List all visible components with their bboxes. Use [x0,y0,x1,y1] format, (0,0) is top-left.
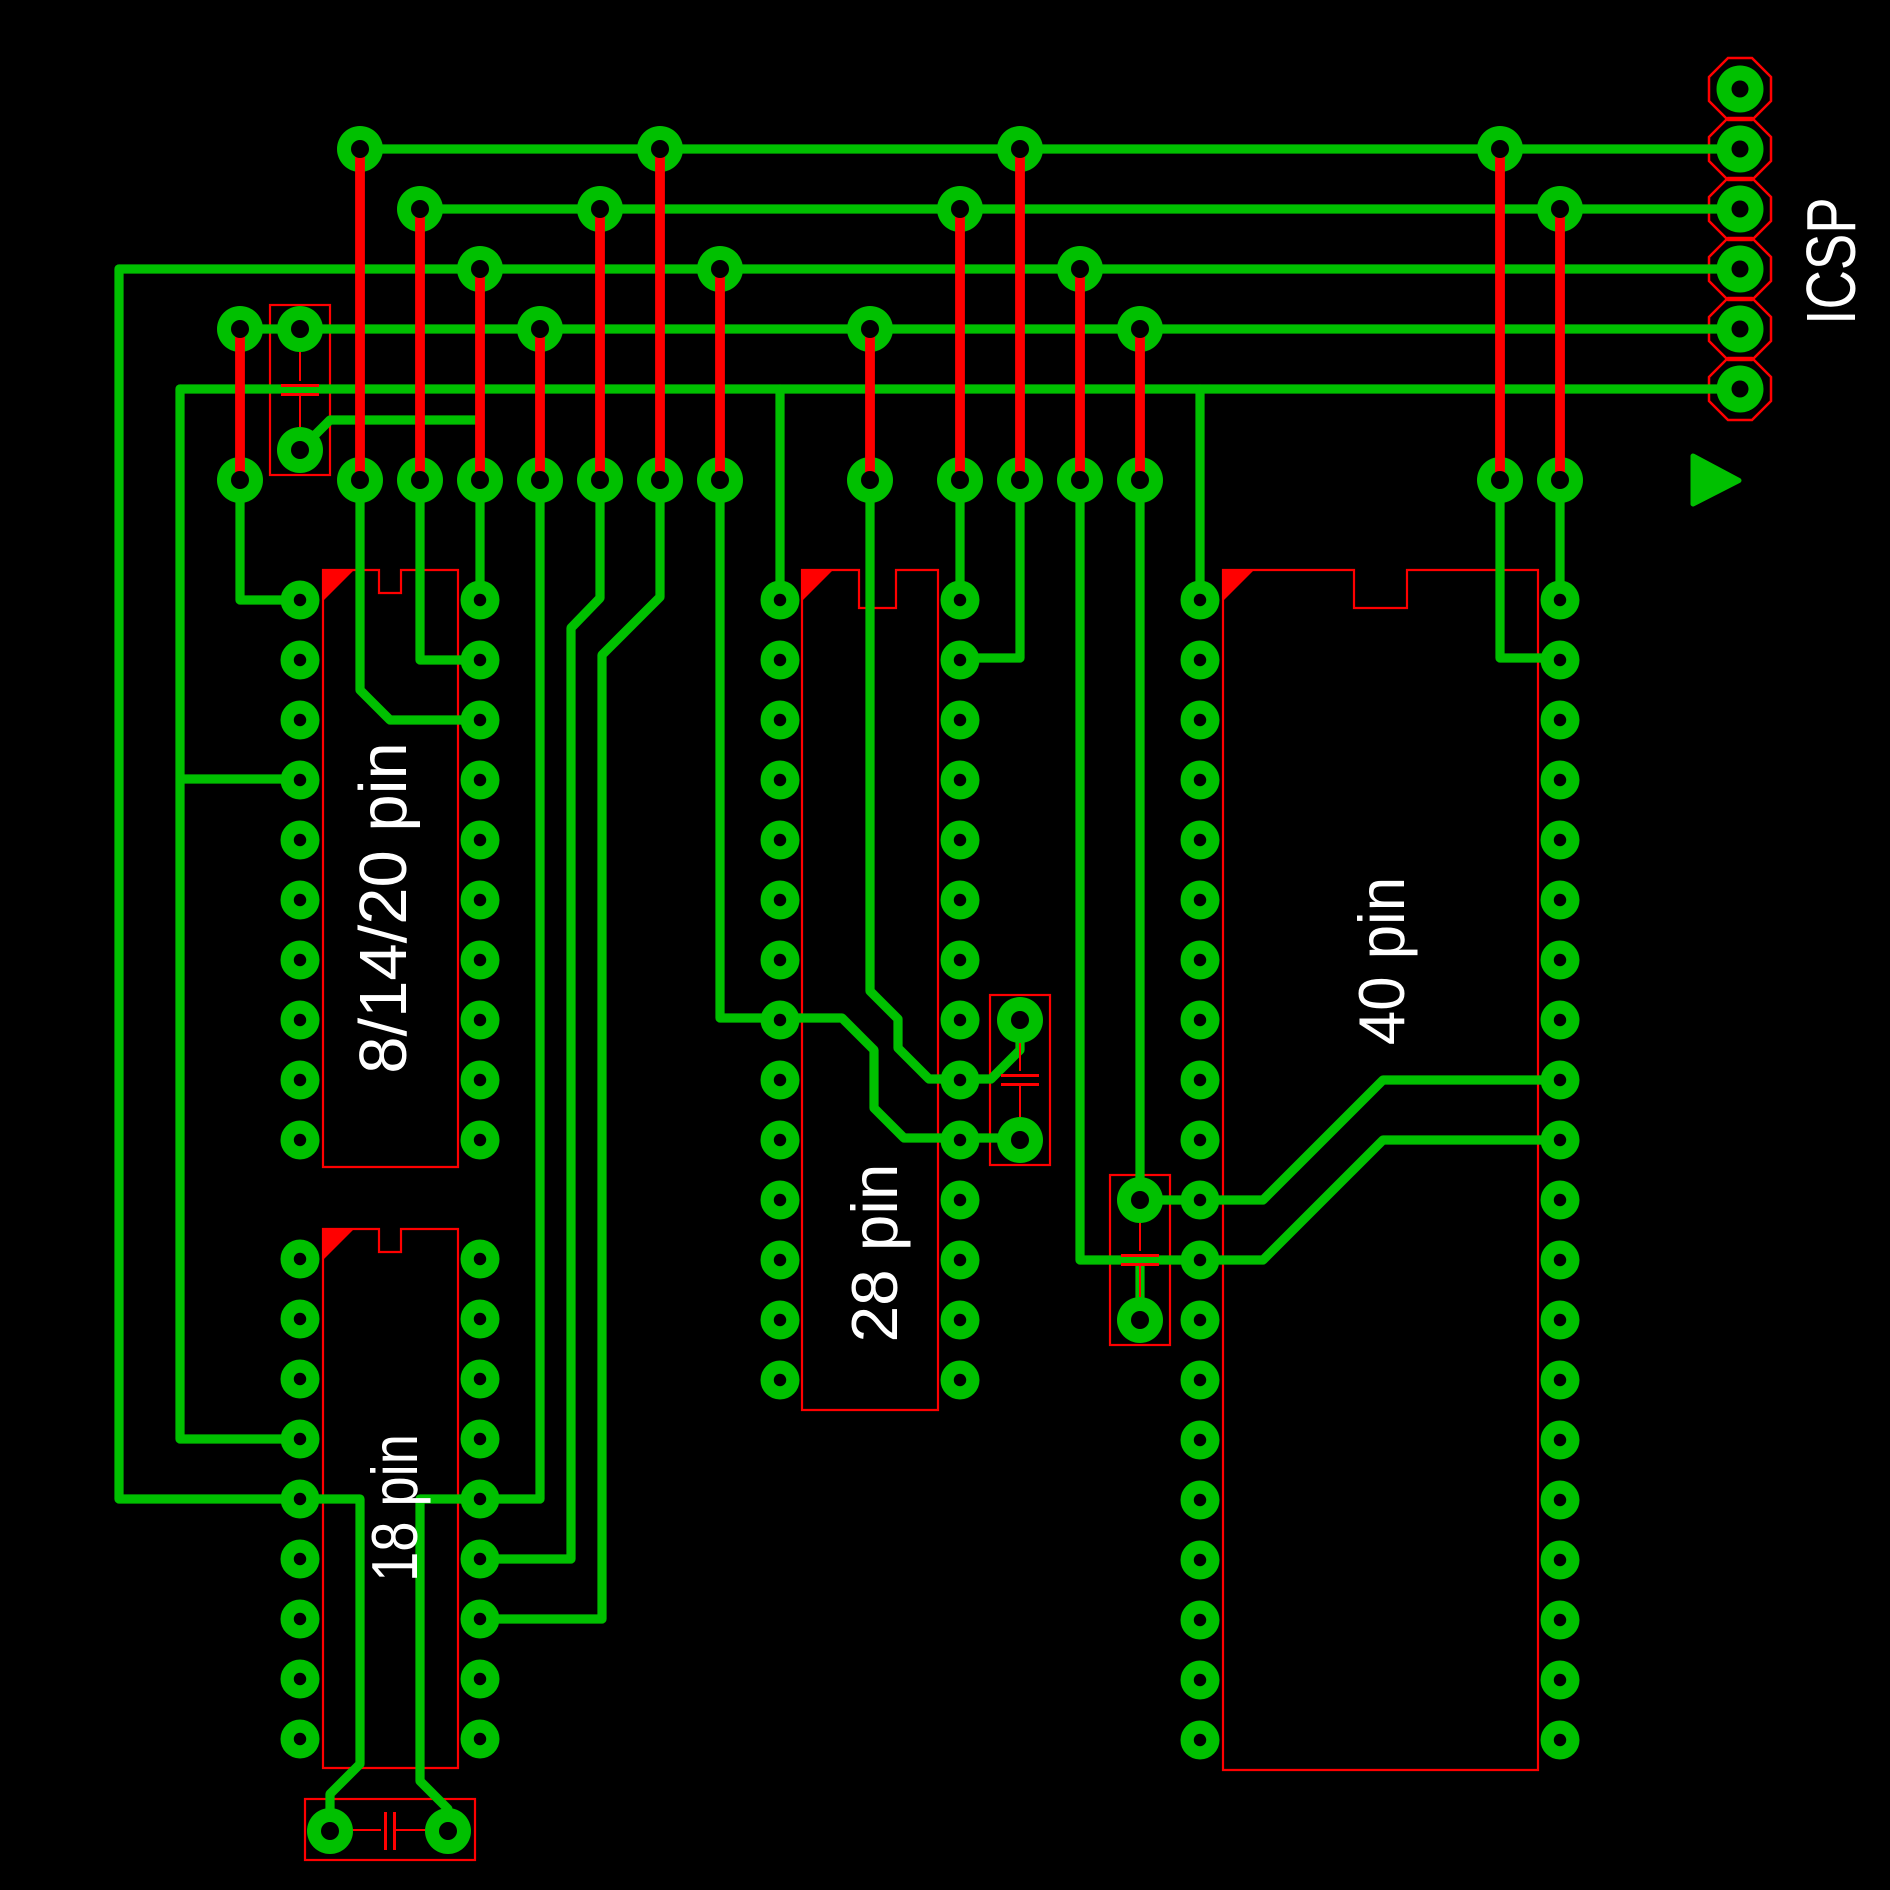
drill holes capacitor pads [291,320,309,338]
svg-text:28 pin: 28 pin [838,1164,911,1343]
ICSP header pad 2 [1717,126,1764,173]
jumper pad J11 [997,457,1043,503]
wire MCLR left drop x=180 [180,389,300,1439]
wire VSS left drop x=119 [119,269,360,1831]
capacitor C2 outline [990,995,1050,1165]
wire pad540 to U2 VDD row and C4 [420,480,540,1831]
capacitor C4 outline [305,1799,475,1860]
ICSP header pad 3 [1717,186,1764,233]
via C2 [697,246,743,292]
ICSP header pad 6 [1717,366,1764,413]
capacitor C4 pad 1 [307,1808,353,1854]
jumper pad J1 [217,457,263,503]
via B3 [937,186,983,232]
wire branch to U2 pin 4 [180,774,300,783]
capacitor C2 symbol [1019,1020,1021,1140]
wire red jumper x=960 y=209 to pad row [955,209,965,480]
drill holes vias and jumper pads [351,140,369,158]
wire C1 pad 2 stub [300,420,480,450]
capacitor C1 pad 1 [277,306,323,352]
via A3 [997,126,1043,172]
wire pad960 to U3 pin 28 [955,480,964,598]
socket U1 pin-1 triangle [323,570,354,601]
svg-text:40 pin: 40 pin [1347,877,1419,1045]
wire red jumper x=1080 y=269 to pad row [1075,269,1085,480]
ICSP pad 4 octagon outline [1709,238,1771,300]
ICSP pad 1 octagon outline [1709,58,1771,120]
drill holes ICSP pads [1732,81,1749,98]
socket U4 pin-1 triangle [1223,570,1254,601]
jumper pad J14 [1477,457,1523,503]
wire red jumper x=600 y=209 to pad row [595,209,605,480]
wire pad600 to U2 pin 14 [480,480,600,1559]
wire pad420 to U1 pin 19 [420,480,480,660]
wire red jumper x=420 y=209 to pad row [415,209,425,480]
jumper pad J9 [847,457,893,503]
socket U1 right column pads [461,581,500,620]
socket U3 pin-1 triangle [802,570,833,601]
wire red jumper x=480 y=269 to pad row [475,269,485,480]
wire pad1080 to U4 pin 12 / VSS [1080,480,1560,1260]
wire pad720 to U3 pin 8 [720,480,780,1018]
via D1 [217,306,263,352]
socket U2 pin-1 triangle [323,1229,354,1260]
jumper pad J2 [337,457,383,503]
wire bus row B (ICSP-3 / RB6) [420,204,1740,213]
wire MCLR branch to U4 pin 1 [1195,389,1204,600]
via D2 [517,306,563,352]
wire pad360 to U1 pin 18 [360,480,480,720]
ICSP pad 6 octagon outline [1709,358,1771,420]
wire red jumper x=1020 y=149 to pad row [1015,149,1025,480]
capacitor C3 symbol [1139,1200,1141,1320]
wire pad1560 to U4 pin 40 [1555,480,1564,600]
svg-text:8/14/20 pin: 8/14/20 pin [346,742,421,1074]
wire bus row D (ICSP-5 / VDD) [240,324,1740,333]
socket U3 left column pads [761,581,800,620]
socket U2 left column pads [281,1240,320,1279]
via B1 [397,186,443,232]
socket U3 (28 pin) outline [802,570,938,1410]
wire bus row C (ICSP-4 / VSS) [119,264,1740,273]
wire red jumper x=1140 y=329 to pad row [1135,329,1145,480]
svg-text:18 pin: 18 pin [358,1434,431,1582]
wire U3 pin 8 to C2 pad 2 [780,1018,1020,1138]
via C1 [457,246,503,292]
capacitor C1 outline [270,305,330,475]
capacitor C3 pad 1 [1117,1177,1163,1223]
socket U4 left column pads [1181,581,1220,620]
capacitor C4 symbol [330,1829,448,1831]
wire red jumper x=660 y=149 to pad row [655,149,665,480]
ICSP pin-1 arrow marker [1693,456,1739,504]
capacitor C4 pad 2 [425,1808,471,1854]
wire red jumper x=720 y=269 to pad row [715,269,725,480]
wire pad240 to U1 pin 1 [240,480,300,600]
capacitor C1 symbol [299,329,301,450]
ICSP pad 2 octagon outline [1709,118,1771,180]
socket U2 (18 pin) outline [323,1229,458,1768]
via C3 [1057,246,1103,292]
wire red jumper x=240 y=329 to pad row [235,329,245,480]
jumper pad J3 [397,457,443,503]
wire MCLR branch to U3 pin 1 [775,389,784,598]
wire red jumper x=540 y=329 to pad row [535,329,545,480]
wire bus row E (ICSP-6 / MCLR) [180,384,1740,393]
via A4 [1477,126,1523,172]
socket U4 (40 pin) outline [1223,570,1538,1770]
jumper pad J5 [517,457,563,503]
capacitor C2 pad 1 [997,997,1043,1043]
wire pad1140 to C3 pad 1 / VDD [1135,480,1144,1200]
via A1 [337,126,383,172]
via B2 [577,186,623,232]
ICSP header pad 1 [1717,66,1764,113]
via B4 [1537,186,1583,232]
capacitor C1 pad 2 [277,427,323,473]
jumper pad J15 [1537,457,1583,503]
ICSP header pad 5 [1717,306,1764,353]
ICSP pad 3 octagon outline [1709,178,1771,240]
jumper pad J10 [937,457,983,503]
wire red jumper x=1500 y=149 to pad row [1495,149,1505,480]
capacitor C3 outline [1110,1175,1170,1345]
capacitor C3 pad 2 [1117,1297,1163,1343]
socket U4 right column pads [1541,581,1580,620]
wire pad660 to U2 pin 13 [480,480,660,1619]
capacitor C2 pad 2 [997,1117,1043,1163]
wire C3 pad 1 to U4 pin 11 [1140,1080,1560,1200]
svg-text:ICSP: ICSP [1793,197,1871,324]
wire pad1500 to U4 pin 39 [1500,480,1560,658]
wire red jumper x=870 y=329 to pad row [865,329,875,480]
jumper pad J6 [577,457,623,503]
socket U1 (8/14/20 pin) outline [323,570,458,1167]
wire pad1020 to U3 pin 27 [960,480,1020,658]
jumper pad J12 [1057,457,1103,503]
wire pad480 to U1 pin 20 [475,480,484,600]
socket U2 right column pads [461,1240,500,1279]
via D3 [847,306,893,352]
jumper pad J13 [1117,457,1163,503]
ICSP header pad 4 [1717,246,1764,293]
wire stub to C3 pad 2 [1135,1260,1144,1320]
wire red jumper x=360 y=149 to pad row [355,149,365,480]
jumper pad J7 [637,457,683,503]
socket U1 left column pads [281,581,320,620]
jumper pad J8 [697,457,743,503]
wire bus row A (ICSP-2 / RB7) [360,144,1740,153]
wire pad870 to U3 pin 20 and C2 pad 1 [870,480,1020,1079]
via D4 [1117,306,1163,352]
jumper pad J4 [457,457,503,503]
ICSP pad 5 octagon outline [1709,298,1771,360]
socket U3 right column pads [941,581,980,620]
wire red jumper x=1560 y=209 to pad row [1555,209,1565,480]
drill holes socket pads [294,594,306,606]
via A2 [637,126,683,172]
